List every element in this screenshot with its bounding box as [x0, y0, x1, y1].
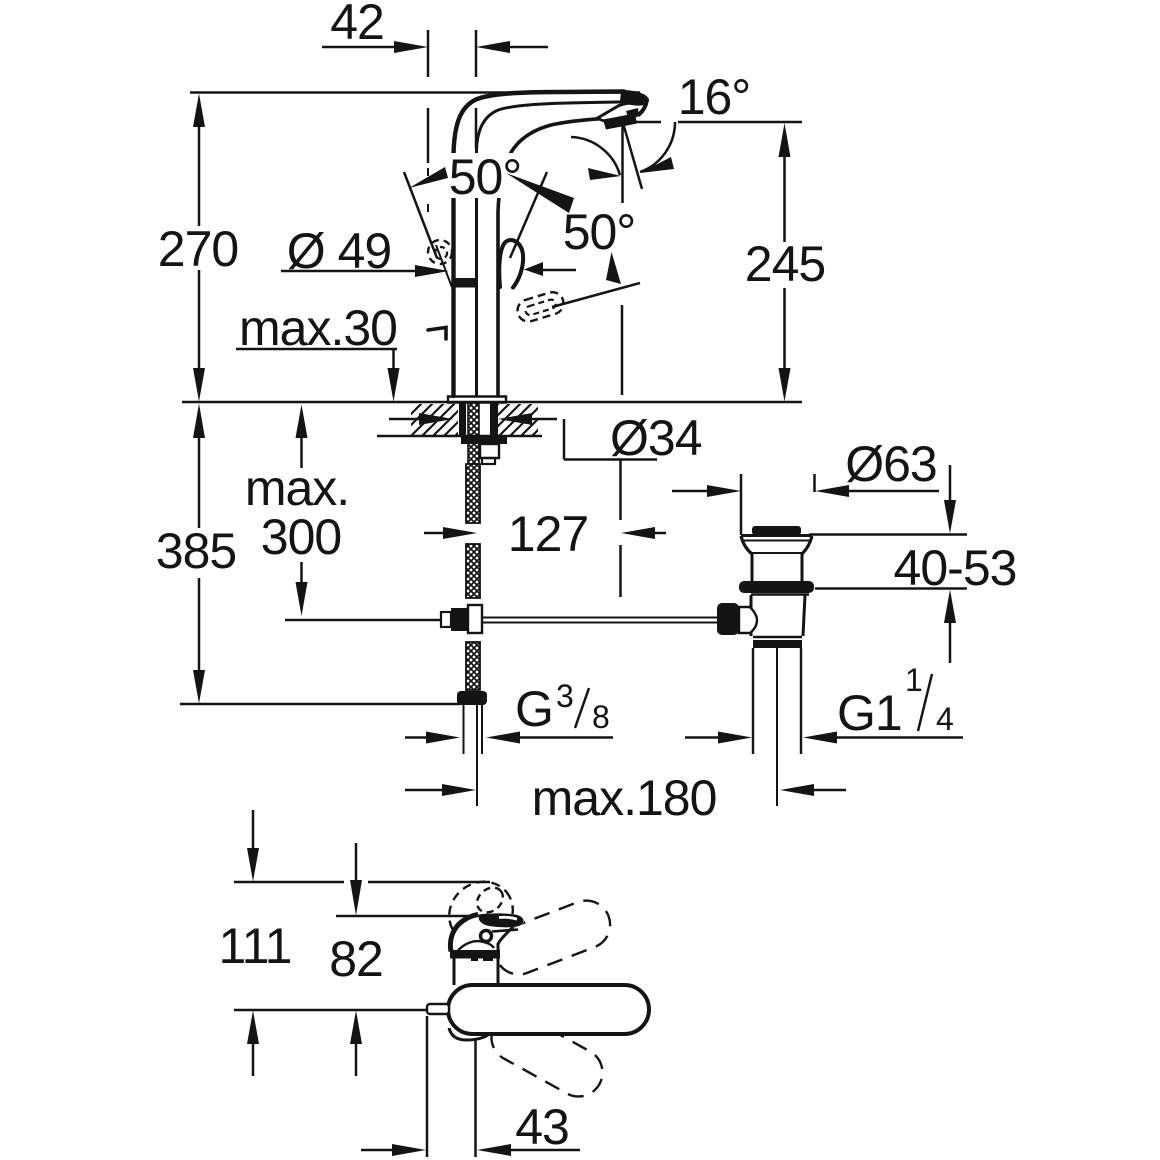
- svg-text:82: 82: [329, 931, 383, 987]
- svg-text:16°: 16°: [678, 69, 751, 125]
- svg-text:8: 8: [592, 699, 610, 735]
- svg-text:300: 300: [261, 509, 341, 565]
- svg-text:Ø63: Ø63: [845, 436, 937, 492]
- svg-text:385: 385: [156, 523, 236, 579]
- svg-text:3: 3: [556, 678, 574, 714]
- svg-text:245: 245: [745, 236, 825, 292]
- svg-text:max.: max.: [245, 460, 349, 516]
- svg-text:Ø34: Ø34: [610, 410, 702, 466]
- svg-text:Ø 49: Ø 49: [287, 223, 391, 279]
- svg-text:111: 111: [218, 918, 291, 974]
- svg-text:max.180: max.180: [532, 770, 717, 826]
- svg-text:4: 4: [936, 701, 954, 737]
- svg-text:G: G: [515, 681, 553, 737]
- svg-text:127: 127: [508, 506, 588, 562]
- svg-text:max.30: max.30: [239, 300, 397, 356]
- svg-text:270: 270: [158, 221, 238, 277]
- svg-text:50°: 50°: [449, 149, 522, 205]
- svg-text:40-53: 40-53: [894, 540, 1017, 596]
- svg-text:42: 42: [330, 0, 384, 50]
- svg-text:G1: G1: [837, 685, 902, 741]
- svg-text:50°: 50°: [563, 204, 636, 260]
- svg-text:43: 43: [515, 1099, 569, 1155]
- svg-text:1: 1: [905, 662, 923, 698]
